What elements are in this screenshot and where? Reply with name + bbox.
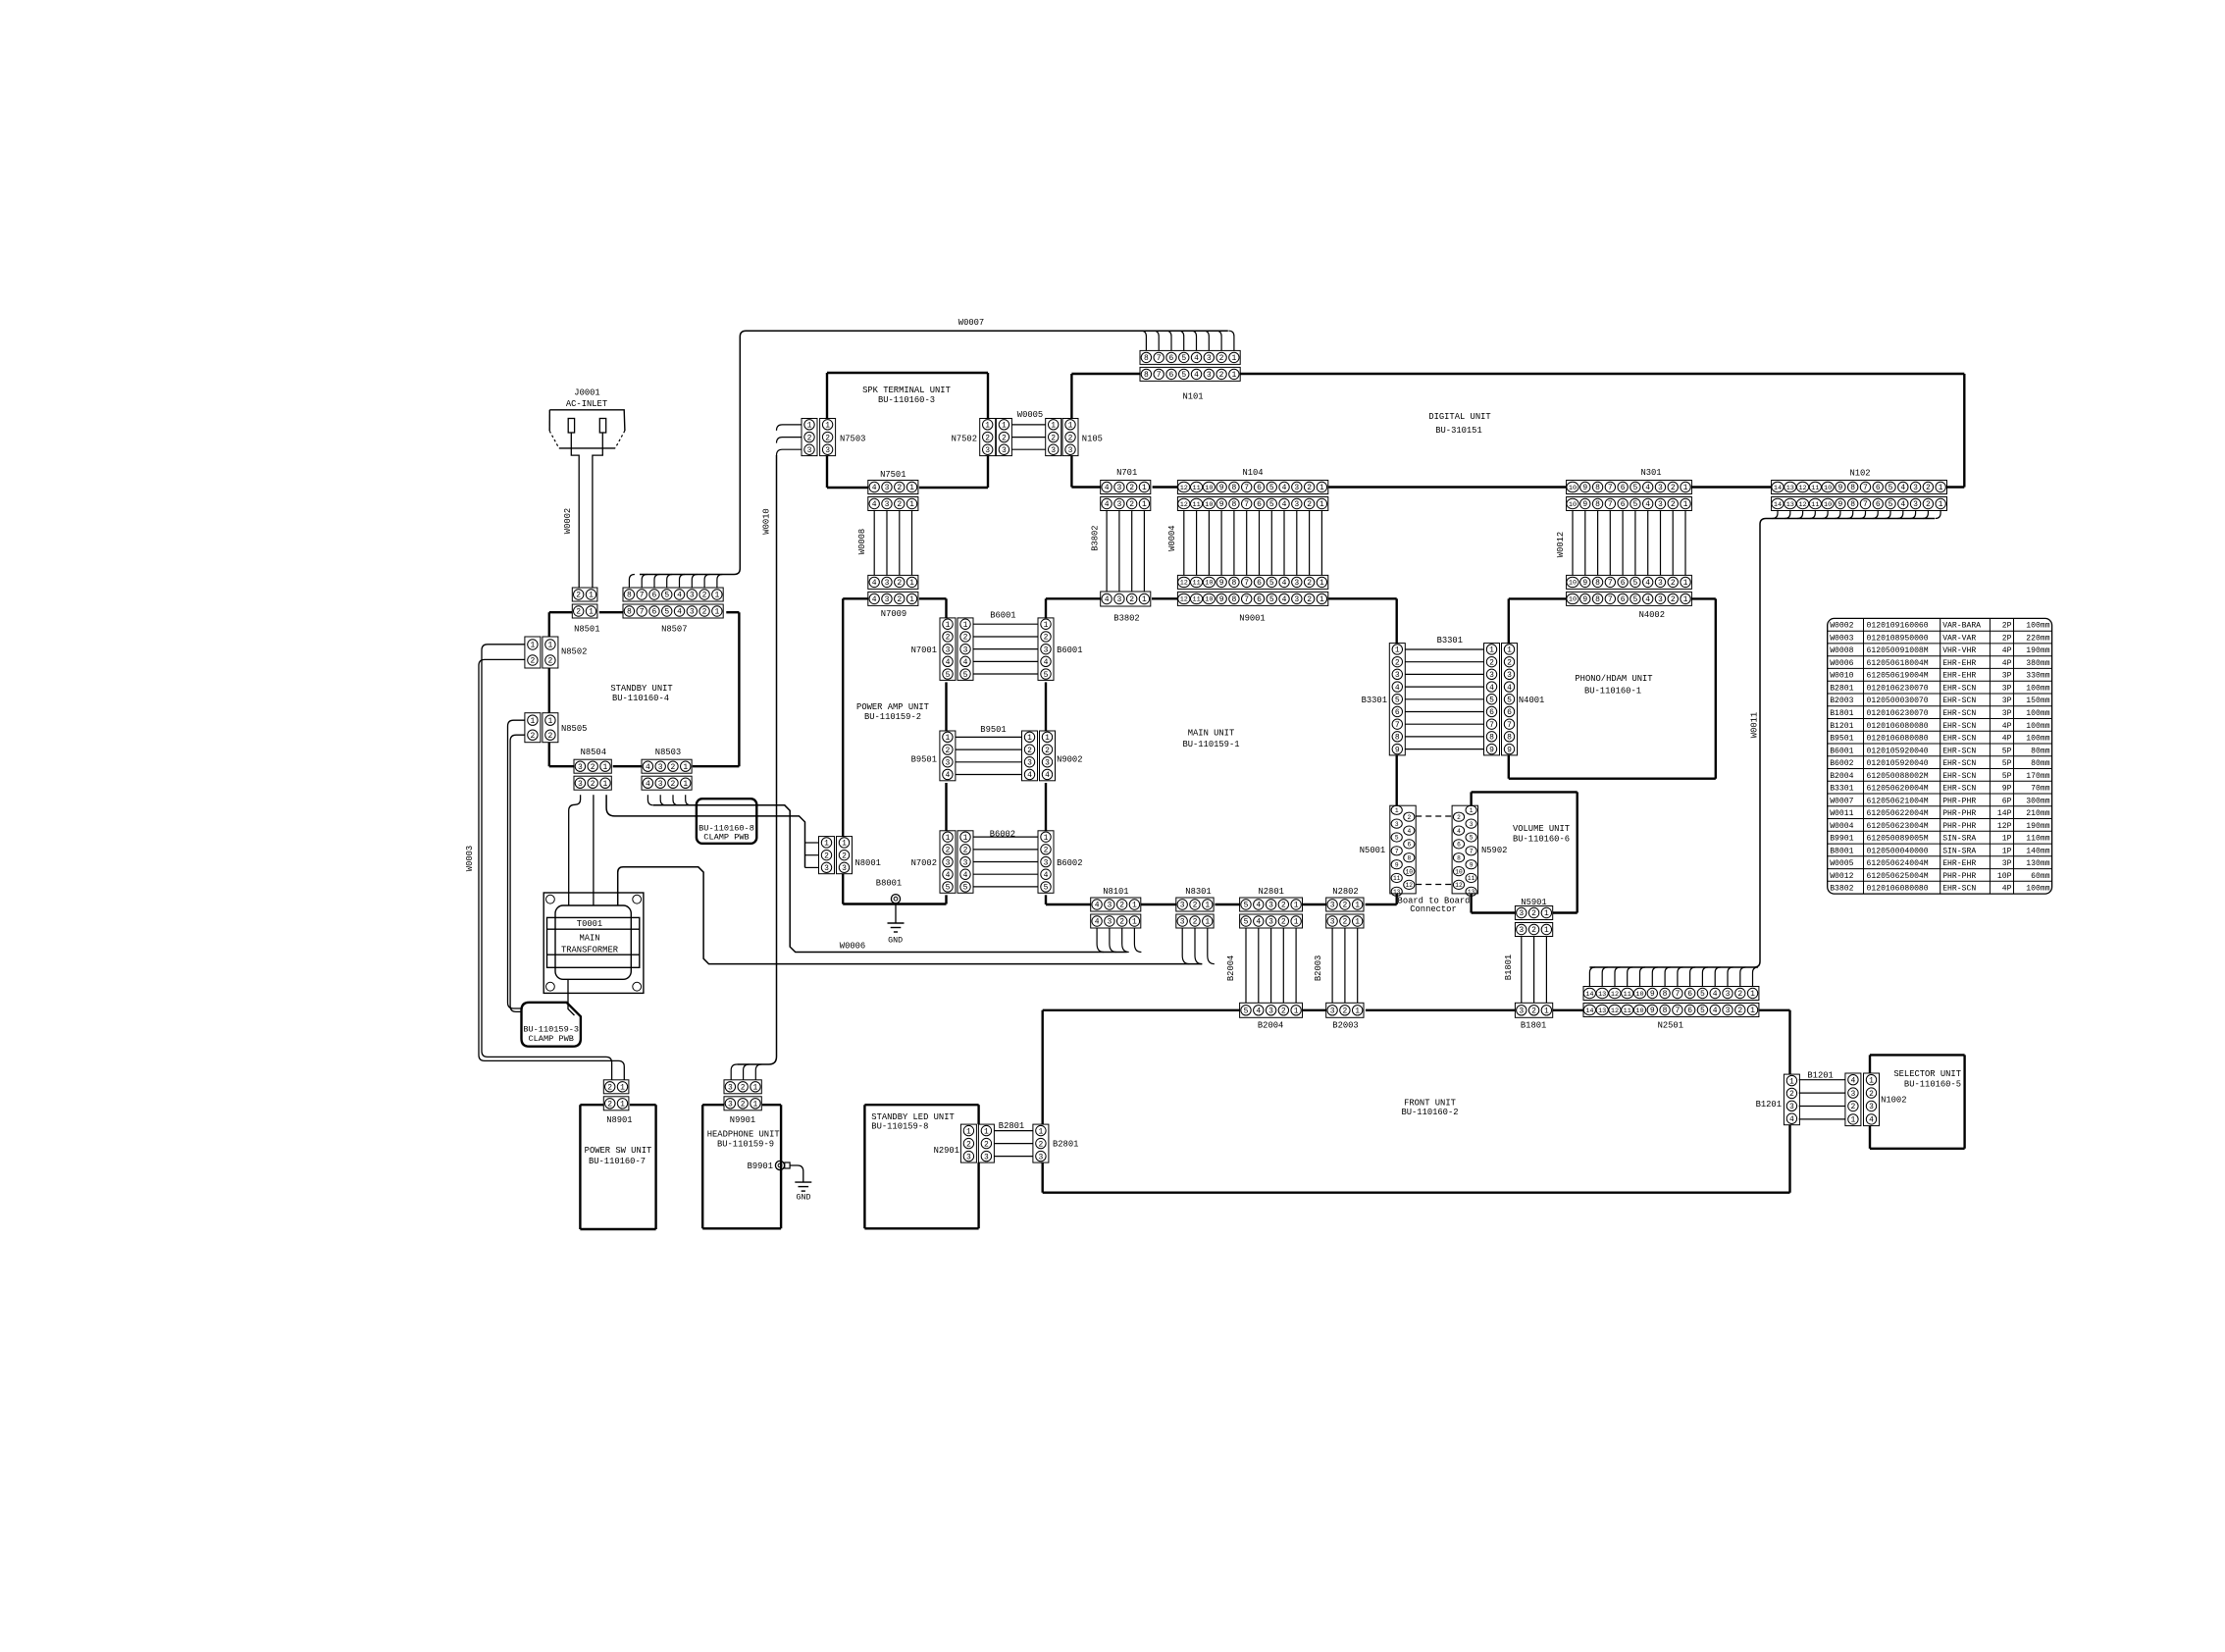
- svg-text:6: 6: [1876, 484, 1881, 492]
- svg-text:2: 2: [842, 852, 847, 860]
- svg-text:6: 6: [1621, 595, 1626, 604]
- svg-text:2: 2: [1281, 1007, 1286, 1016]
- svg-text:1: 1: [589, 608, 594, 617]
- wire B2004 cable: [1226, 928, 1296, 1003]
- svg-text:N8101: N8101: [1103, 887, 1128, 897]
- connector N7503: [802, 419, 865, 456]
- svg-text:T0001: T0001: [577, 919, 602, 929]
- svg-text:1: 1: [1038, 1127, 1043, 1136]
- wire B3301 cable: [1405, 636, 1483, 749]
- svg-text:14: 14: [1774, 485, 1782, 492]
- svg-text:CLAMP PWB: CLAMP PWB: [703, 833, 749, 843]
- svg-text:5: 5: [1244, 902, 1249, 910]
- svg-text:1: 1: [683, 763, 688, 772]
- svg-text:612050621004M: 612050621004M: [1867, 797, 1929, 805]
- svg-text:4: 4: [677, 608, 682, 617]
- svg-text:5: 5: [1044, 671, 1049, 680]
- svg-text:5: 5: [1489, 696, 1494, 704]
- connector B2801 front side: [1033, 1124, 1079, 1162]
- svg-text:N105: N105: [1082, 435, 1103, 444]
- svg-text:2: 2: [1038, 1140, 1043, 1149]
- svg-text:80mm: 80mm: [2031, 747, 2050, 755]
- svg-text:2: 2: [1395, 658, 1400, 667]
- svg-text:3: 3: [1044, 645, 1049, 654]
- svg-text:7: 7: [1863, 484, 1868, 492]
- svg-text:1: 1: [1319, 484, 1324, 492]
- svg-text:60mm: 60mm: [2031, 872, 2050, 881]
- svg-text:B3301: B3301: [1362, 696, 1387, 705]
- svg-text:B6002: B6002: [990, 830, 1015, 840]
- svg-text:4: 4: [1457, 828, 1461, 835]
- svg-text:9: 9: [1837, 500, 1842, 509]
- unit box POWER AMP UNIT BU-110159-2: [843, 598, 946, 903]
- svg-text:2: 2: [1129, 500, 1134, 509]
- svg-text:4P: 4P: [2002, 885, 2012, 894]
- svg-text:3P: 3P: [2002, 859, 2012, 868]
- wire W0006 cable: [647, 795, 1141, 952]
- svg-text:100mm: 100mm: [2026, 735, 2049, 744]
- svg-text:2: 2: [547, 732, 552, 741]
- svg-text:5: 5: [1269, 595, 1274, 604]
- svg-text:4: 4: [1645, 579, 1650, 588]
- svg-text:STANDBY LED UNIT: STANDBY LED UNIT: [871, 1112, 954, 1122]
- svg-text:9: 9: [1582, 595, 1587, 604]
- svg-text:80mm: 80mm: [2031, 759, 2050, 768]
- svg-text:3: 3: [1658, 595, 1663, 604]
- svg-text:6: 6: [652, 608, 657, 617]
- svg-text:3: 3: [825, 446, 830, 455]
- svg-text:8: 8: [1850, 484, 1855, 492]
- svg-text:N4002: N4002: [1639, 610, 1665, 620]
- svg-text:5: 5: [1269, 579, 1274, 588]
- wire B3802 cable: [1091, 511, 1145, 593]
- svg-text:2: 2: [530, 732, 535, 741]
- svg-text:5: 5: [1632, 595, 1637, 604]
- svg-text:14: 14: [1585, 991, 1593, 999]
- svg-text:N1002: N1002: [1881, 1096, 1906, 1106]
- svg-text:B3301: B3301: [1830, 785, 1853, 794]
- svg-text:6: 6: [1457, 842, 1461, 849]
- svg-text:3: 3: [885, 595, 890, 604]
- svg-text:3: 3: [1002, 446, 1007, 455]
- svg-text:N5902: N5902: [1481, 846, 1507, 855]
- svg-text:B1801: B1801: [1504, 955, 1514, 980]
- svg-text:PHR-PHR: PHR-PHR: [1942, 809, 1976, 818]
- connector N8507: [623, 588, 723, 635]
- svg-text:EHR-SCN: EHR-SCN: [1942, 772, 1976, 781]
- connector N8301: [1176, 887, 1214, 928]
- svg-text:1: 1: [946, 834, 951, 843]
- svg-text:11: 11: [1192, 485, 1200, 492]
- svg-text:3: 3: [1207, 354, 1212, 363]
- connector N1002 with cable end: [1845, 1073, 1907, 1126]
- svg-text:0120106080080: 0120106080080: [1867, 722, 1929, 731]
- svg-text:3: 3: [1180, 902, 1185, 910]
- svg-text:3: 3: [1051, 446, 1056, 455]
- svg-text:4: 4: [872, 484, 877, 492]
- svg-text:2: 2: [1281, 918, 1286, 927]
- svg-text:4: 4: [646, 763, 650, 772]
- svg-text:1: 1: [1544, 1007, 1549, 1016]
- svg-text:1: 1: [1231, 371, 1236, 380]
- svg-text:N9901: N9901: [730, 1115, 755, 1125]
- svg-text:2: 2: [1737, 990, 1742, 999]
- svg-text:N5001: N5001: [1360, 846, 1385, 855]
- svg-text:1: 1: [753, 1101, 758, 1110]
- svg-text:2: 2: [1219, 371, 1224, 380]
- svg-text:2P: 2P: [2002, 622, 2012, 631]
- wire B2801 cable: [994, 1121, 1033, 1157]
- svg-text:12: 12: [1611, 1007, 1619, 1015]
- svg-text:W0002: W0002: [1830, 622, 1853, 631]
- svg-text:B3301: B3301: [1437, 636, 1463, 645]
- svg-text:2: 2: [897, 484, 902, 492]
- svg-text:100mm: 100mm: [2026, 709, 2049, 718]
- svg-text:5: 5: [1507, 696, 1512, 704]
- svg-text:W0007: W0007: [958, 318, 984, 328]
- svg-text:2: 2: [1850, 1103, 1855, 1111]
- svg-text:N7001: N7001: [911, 645, 937, 655]
- connector N7502: [952, 419, 1012, 456]
- svg-text:B8001: B8001: [876, 879, 902, 889]
- connector N8503: [642, 748, 692, 790]
- svg-text:B2004: B2004: [1830, 772, 1853, 781]
- svg-text:2: 2: [1789, 1090, 1794, 1099]
- svg-text:3: 3: [963, 645, 968, 654]
- svg-text:2: 2: [946, 634, 951, 643]
- svg-text:9: 9: [1219, 500, 1224, 509]
- svg-text:4: 4: [1045, 771, 1050, 780]
- svg-text:12: 12: [1180, 501, 1188, 509]
- svg-text:3: 3: [578, 763, 583, 772]
- svg-text:1: 1: [807, 422, 812, 431]
- svg-text:7: 7: [1395, 849, 1399, 855]
- svg-text:1: 1: [530, 717, 535, 726]
- svg-text:J0001: J0001: [574, 388, 599, 398]
- svg-text:11: 11: [1192, 501, 1200, 509]
- svg-text:2: 2: [591, 763, 595, 772]
- svg-text:W0003: W0003: [465, 846, 475, 871]
- wire transformer lead to clamp PWB: [568, 979, 575, 1015]
- svg-text:N8501: N8501: [574, 625, 599, 635]
- svg-text:5: 5: [1632, 579, 1637, 588]
- clamp box BU-110159-3 CLAMP PWB: [522, 1003, 581, 1047]
- svg-text:7: 7: [1244, 595, 1249, 604]
- connector B2004 board side: [1240, 1003, 1303, 1030]
- svg-text:1: 1: [946, 621, 951, 630]
- svg-text:1: 1: [1051, 422, 1056, 431]
- svg-text:6: 6: [1257, 500, 1262, 509]
- svg-text:B9501: B9501: [911, 755, 937, 765]
- connector N4002: [1567, 575, 1692, 620]
- svg-text:2: 2: [702, 608, 707, 617]
- svg-text:4: 4: [1282, 500, 1287, 509]
- svg-text:GND: GND: [888, 936, 903, 945]
- svg-text:11: 11: [1624, 991, 1631, 999]
- svg-text:14P: 14P: [1997, 809, 2012, 818]
- svg-text:12: 12: [1798, 501, 1806, 509]
- svg-text:VOLUME UNIT: VOLUME UNIT: [1513, 824, 1570, 834]
- svg-text:0120500030070: 0120500030070: [1867, 697, 1929, 705]
- svg-text:13: 13: [1786, 485, 1794, 492]
- svg-text:9P: 9P: [2002, 785, 2012, 794]
- connector N7501: [868, 470, 918, 511]
- svg-text:4: 4: [1256, 902, 1261, 910]
- svg-text:612050624004M: 612050624004M: [1867, 859, 1929, 868]
- svg-text:5: 5: [664, 592, 669, 600]
- svg-text:1: 1: [1939, 500, 1943, 509]
- connector B2003 board side: [1326, 1003, 1364, 1030]
- svg-text:1: 1: [909, 595, 914, 604]
- svg-text:3: 3: [885, 484, 890, 492]
- svg-text:2: 2: [1671, 484, 1676, 492]
- svg-text:VHR-VHR: VHR-VHR: [1942, 646, 1976, 655]
- svg-text:1: 1: [1132, 902, 1137, 910]
- svg-text:6: 6: [1169, 354, 1174, 363]
- svg-text:B8001: B8001: [1830, 847, 1853, 855]
- connector N4001: [1484, 644, 1545, 755]
- svg-text:2: 2: [1119, 902, 1124, 910]
- svg-text:2: 2: [985, 434, 990, 442]
- svg-text:300mm: 300mm: [2026, 797, 2049, 805]
- svg-text:BU-110160-6: BU-110160-6: [1513, 835, 1570, 845]
- svg-text:1: 1: [683, 780, 688, 789]
- svg-text:B6001: B6001: [1057, 645, 1082, 655]
- svg-text:1P: 1P: [2002, 835, 2012, 844]
- svg-text:3: 3: [824, 864, 829, 873]
- svg-text:6: 6: [1257, 484, 1262, 492]
- wire harness table: [1828, 618, 2052, 894]
- svg-text:B2003: B2003: [1314, 955, 1323, 981]
- svg-text:100mm: 100mm: [2026, 722, 2049, 731]
- svg-text:2: 2: [671, 780, 676, 789]
- connector B9501 amp side: [911, 731, 956, 781]
- svg-text:7: 7: [1157, 371, 1162, 380]
- svg-text:2: 2: [897, 595, 902, 604]
- svg-text:8: 8: [1663, 990, 1668, 999]
- svg-text:1: 1: [909, 484, 914, 492]
- svg-text:5: 5: [963, 671, 968, 680]
- transformer T0001 MAIN TRANSFORMER: [543, 893, 644, 993]
- svg-text:3: 3: [1045, 758, 1050, 767]
- svg-text:SELECTOR UNIT: SELECTOR UNIT: [1893, 1069, 1961, 1079]
- svg-text:W0012: W0012: [1556, 532, 1566, 557]
- svg-text:N2801: N2801: [1258, 887, 1283, 897]
- svg-text:3: 3: [1658, 484, 1663, 492]
- svg-text:EHR-SCN: EHR-SCN: [1942, 722, 1976, 731]
- svg-text:5: 5: [963, 884, 968, 893]
- svg-text:3: 3: [1038, 1153, 1043, 1162]
- svg-text:2: 2: [1219, 354, 1224, 363]
- svg-text:9: 9: [1489, 746, 1494, 754]
- svg-text:3: 3: [1913, 500, 1918, 509]
- connector N7009: [868, 575, 918, 619]
- svg-text:W0006: W0006: [840, 942, 865, 952]
- svg-text:BU-110160-7: BU-110160-7: [589, 1157, 646, 1166]
- svg-text:EHR-SCN: EHR-SCN: [1942, 759, 1976, 768]
- svg-text:10: 10: [1569, 501, 1577, 509]
- svg-text:9: 9: [1650, 990, 1655, 999]
- svg-text:10: 10: [1205, 580, 1213, 588]
- svg-text:1: 1: [909, 579, 914, 588]
- svg-text:2: 2: [1281, 902, 1286, 910]
- svg-text:B9501: B9501: [980, 725, 1006, 735]
- svg-text:EHR-SCN: EHR-SCN: [1942, 785, 1976, 794]
- svg-text:2: 2: [1044, 847, 1049, 855]
- wire B1801 cable: [1504, 937, 1546, 1004]
- svg-text:1: 1: [589, 592, 594, 600]
- svg-text:7: 7: [1608, 579, 1613, 588]
- svg-text:1: 1: [1355, 918, 1360, 927]
- svg-text:150mm: 150mm: [2026, 697, 2049, 705]
- connector B3301 main side: [1362, 644, 1406, 755]
- svg-text:BU-110159-3: BU-110159-3: [523, 1025, 579, 1035]
- connector N301: [1567, 468, 1692, 511]
- svg-text:N2901: N2901: [934, 1146, 959, 1156]
- svg-text:10: 10: [1205, 596, 1213, 604]
- svg-text:110mm: 110mm: [2026, 835, 2049, 844]
- svg-text:4: 4: [946, 658, 951, 667]
- svg-text:10: 10: [1635, 1007, 1643, 1015]
- svg-text:3: 3: [945, 758, 950, 767]
- connector B6002 main side: [1038, 831, 1083, 894]
- svg-text:12P: 12P: [1997, 822, 2012, 831]
- svg-text:2: 2: [1068, 434, 1073, 442]
- unit box DIGITAL UNIT BU-310151: [1071, 374, 1964, 488]
- svg-text:3: 3: [1294, 484, 1299, 492]
- svg-text:2: 2: [966, 1140, 971, 1149]
- svg-text:1: 1: [603, 763, 608, 772]
- svg-text:2: 2: [1342, 918, 1347, 927]
- svg-text:W0003: W0003: [1830, 634, 1853, 643]
- svg-text:FRONT UNIT: FRONT UNIT: [1404, 1099, 1456, 1109]
- svg-text:3: 3: [946, 858, 951, 867]
- svg-text:612050625004M: 612050625004M: [1867, 872, 1929, 881]
- svg-text:4: 4: [1713, 1007, 1718, 1015]
- svg-text:1: 1: [714, 608, 719, 617]
- svg-text:6: 6: [1687, 990, 1692, 999]
- svg-text:2: 2: [1307, 579, 1312, 588]
- svg-text:3: 3: [1107, 918, 1112, 927]
- svg-text:EHR-SCN: EHR-SCN: [1942, 684, 1976, 693]
- svg-text:W0008: W0008: [1830, 646, 1853, 655]
- svg-text:3: 3: [1789, 1103, 1794, 1111]
- svg-text:3: 3: [885, 579, 890, 588]
- svg-text:9: 9: [1395, 861, 1399, 868]
- svg-text:4: 4: [1645, 500, 1650, 509]
- svg-text:3: 3: [985, 446, 990, 455]
- svg-text:5: 5: [1632, 500, 1637, 509]
- ground GND at B9901: [790, 1165, 811, 1203]
- svg-text:2: 2: [1407, 814, 1411, 821]
- svg-text:9: 9: [1219, 579, 1224, 588]
- svg-text:5: 5: [1889, 500, 1893, 509]
- svg-text:8: 8: [1232, 595, 1237, 604]
- svg-text:EHR-EHR: EHR-EHR: [1942, 859, 1976, 868]
- svg-text:2: 2: [1531, 909, 1536, 918]
- svg-text:4: 4: [1194, 354, 1199, 363]
- svg-text:1: 1: [1869, 1076, 1874, 1085]
- svg-text:3: 3: [1519, 1007, 1524, 1016]
- svg-text:MAIN UNIT: MAIN UNIT: [1188, 729, 1235, 739]
- svg-text:2: 2: [702, 592, 707, 600]
- svg-text:3: 3: [1519, 909, 1524, 918]
- svg-text:9: 9: [1582, 579, 1587, 588]
- svg-text:W0005: W0005: [1830, 859, 1853, 868]
- svg-text:1: 1: [963, 621, 968, 630]
- svg-text:B2004: B2004: [1258, 1021, 1283, 1031]
- svg-text:3: 3: [1116, 484, 1121, 492]
- svg-text:2: 2: [807, 434, 812, 442]
- svg-text:8: 8: [1595, 579, 1600, 588]
- svg-text:1: 1: [620, 1084, 625, 1093]
- svg-text:N4001: N4001: [1519, 696, 1544, 705]
- svg-text:100mm: 100mm: [2026, 622, 2049, 631]
- svg-text:3P: 3P: [2002, 672, 2012, 681]
- svg-text:10: 10: [1569, 580, 1577, 588]
- svg-text:4: 4: [872, 579, 877, 588]
- svg-text:5: 5: [1889, 484, 1893, 492]
- wire W0010 cable: [731, 425, 802, 1080]
- svg-text:POWER SW UNIT: POWER SW UNIT: [585, 1146, 652, 1156]
- svg-text:3: 3: [1726, 990, 1731, 999]
- svg-text:7: 7: [1863, 500, 1868, 509]
- svg-text:2: 2: [1119, 918, 1124, 927]
- wire B1201 cable: [1799, 1070, 1845, 1119]
- svg-text:5: 5: [1395, 835, 1399, 842]
- connector N5001 board-to-board: [1360, 805, 1416, 896]
- svg-text:4: 4: [1713, 990, 1718, 999]
- svg-text:N8001: N8001: [855, 858, 881, 868]
- svg-text:1P: 1P: [2002, 847, 2012, 855]
- svg-text:2: 2: [825, 434, 830, 442]
- svg-text:W0004: W0004: [1830, 822, 1853, 831]
- svg-text:1: 1: [945, 734, 950, 743]
- wire W0011 cable: [1589, 511, 1940, 987]
- svg-text:1: 1: [1044, 621, 1049, 630]
- svg-text:3: 3: [1268, 902, 1273, 910]
- svg-text:4: 4: [1044, 871, 1049, 880]
- connector N2801: [1240, 887, 1303, 928]
- svg-text:4: 4: [1395, 684, 1400, 693]
- svg-text:190mm: 190mm: [2026, 822, 2049, 831]
- wire W0008 cable: [857, 511, 912, 576]
- svg-text:612050091008M: 612050091008M: [1867, 646, 1929, 655]
- svg-text:3: 3: [1658, 500, 1663, 509]
- wire W0007 cable: [629, 318, 1234, 588]
- svg-text:10: 10: [1824, 501, 1832, 509]
- svg-text:0120109160060: 0120109160060: [1867, 622, 1929, 631]
- svg-text:SIN-SRA: SIN-SRA: [1942, 847, 1976, 855]
- svg-text:11: 11: [1624, 1007, 1631, 1015]
- label Board to Board Connector: [1398, 897, 1471, 915]
- svg-text:3P: 3P: [2002, 697, 2012, 705]
- svg-text:1: 1: [1683, 579, 1688, 588]
- svg-text:4: 4: [872, 595, 877, 604]
- svg-text:PHONO/HDAM UNIT: PHONO/HDAM UNIT: [1575, 674, 1652, 684]
- svg-text:SPK TERMINAL UNIT: SPK TERMINAL UNIT: [862, 386, 951, 395]
- svg-text:1: 1: [1205, 918, 1210, 927]
- svg-text:3P: 3P: [2002, 709, 2012, 718]
- svg-text:1: 1: [1544, 926, 1549, 935]
- svg-text:612050618004M: 612050618004M: [1867, 659, 1929, 668]
- svg-text:8: 8: [627, 592, 632, 600]
- svg-text:5P: 5P: [2002, 772, 2012, 781]
- svg-text:POWER AMP UNIT: POWER AMP UNIT: [856, 702, 929, 712]
- unit box VOLUME UNIT BU-110160-6: [1472, 792, 1578, 912]
- svg-text:W0007: W0007: [1830, 797, 1853, 805]
- svg-text:B6001: B6001: [990, 611, 1015, 621]
